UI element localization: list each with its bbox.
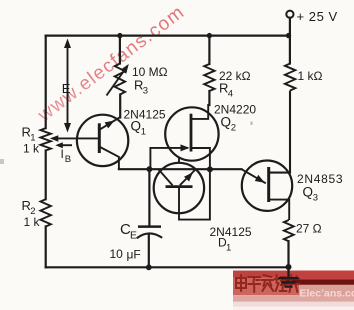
resistor 27 ohm xyxy=(284,220,322,267)
E arrow annotation xyxy=(62,39,71,133)
svg-text:B: B xyxy=(65,154,71,165)
svg-text:27 Ω: 27 Ω xyxy=(296,222,322,236)
node B junction xyxy=(207,166,213,172)
svg-text:3: 3 xyxy=(313,193,318,204)
svg-text:Elec’ans.com: Elec’ans.com xyxy=(300,288,354,300)
svg-text:1 k: 1 k xyxy=(23,142,40,156)
svg-text:3: 3 xyxy=(143,86,148,97)
svg-text:Q: Q xyxy=(221,115,232,130)
svg-text:+ 25 V: + 25 V xyxy=(297,9,338,24)
node ground junction xyxy=(286,264,292,270)
node A junction xyxy=(147,166,153,172)
capacitor CE 10uF xyxy=(110,221,163,262)
transistor Q1 2N4125 xyxy=(77,108,166,170)
wire stub Q2-D1 xyxy=(178,157,180,164)
svg-text:E: E xyxy=(62,81,71,96)
wire node A down to CE xyxy=(148,169,150,226)
svg-text:1: 1 xyxy=(141,127,146,138)
svg-text:2N4125: 2N4125 xyxy=(210,225,252,239)
scan smudge xyxy=(0,159,4,164)
node top-left junction R3 xyxy=(117,33,122,38)
svg-text:1: 1 xyxy=(226,243,231,254)
svg-text:I: I xyxy=(61,147,64,161)
watermark banner elecfans xyxy=(233,271,354,310)
svg-text:E: E xyxy=(130,230,137,242)
node CE bottom junction xyxy=(146,264,152,270)
wire left rail lower xyxy=(45,227,47,268)
wire bottom rail xyxy=(46,266,289,268)
wire gate L from node A xyxy=(150,148,188,169)
svg-text:Q: Q xyxy=(303,185,314,200)
node top junction R4 xyxy=(207,33,212,38)
wire node A to node B xyxy=(149,168,210,170)
+25V terminal xyxy=(286,9,337,36)
IB arrow annotation xyxy=(55,142,72,165)
wire node B to Q3 emitter xyxy=(210,168,242,170)
wire top rail xyxy=(46,34,290,36)
ground xyxy=(278,267,298,287)
wire CE to bottom rail xyxy=(148,234,150,267)
wire Q1 collector to node A xyxy=(119,168,149,170)
watermark www.elecfans.com xyxy=(34,2,189,127)
resistor R3 10M pot xyxy=(107,36,168,118)
svg-text:1 k: 1 k xyxy=(24,215,41,229)
transistor D1 2N4125 diode xyxy=(154,163,252,254)
wire Q1 base to R1 wiper xyxy=(50,135,100,142)
node top junction +25V xyxy=(286,33,291,38)
transistor Q3 2N4853 xyxy=(242,91,344,221)
svg-text:μF: μF xyxy=(127,248,141,262)
scan speck xyxy=(251,122,253,126)
svg-text:2: 2 xyxy=(231,123,236,134)
svg-text:10: 10 xyxy=(110,247,124,261)
transistor Q2 2N4220 xyxy=(165,103,256,170)
svg-text:4: 4 xyxy=(228,89,233,100)
wire left rail middle xyxy=(45,151,47,200)
resistor R1 (pot) xyxy=(22,125,51,156)
wire left rail upper xyxy=(45,36,47,129)
resistor R4 22k xyxy=(204,36,250,105)
svg-text:Q: Q xyxy=(131,119,142,134)
svg-text:1 kΩ: 1 kΩ xyxy=(298,69,323,83)
resistor R2 xyxy=(22,198,51,229)
resistor 1k right xyxy=(285,36,323,91)
